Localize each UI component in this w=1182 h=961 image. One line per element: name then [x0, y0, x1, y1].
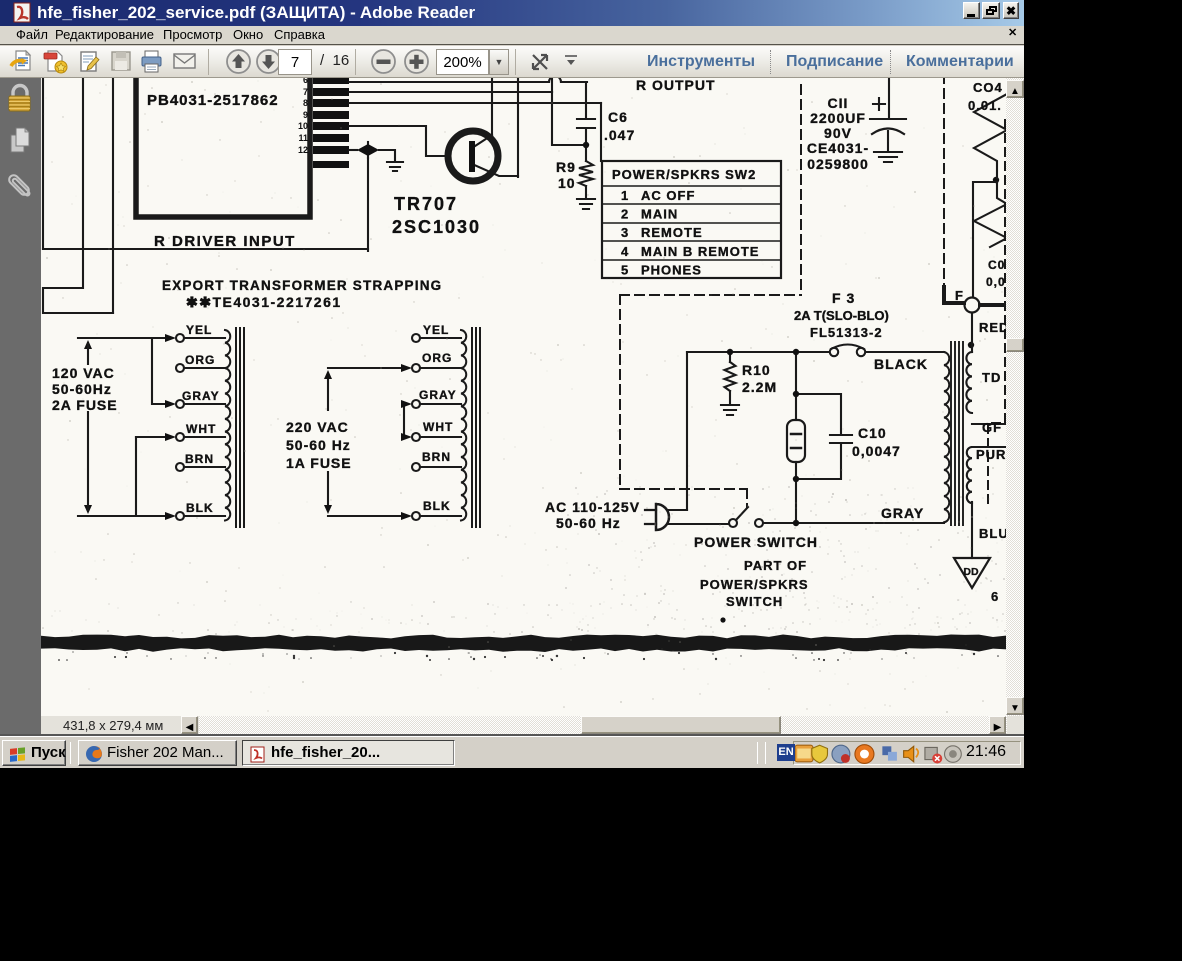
svg-text:SWITCH: SWITCH — [726, 594, 783, 609]
svg-text:0,0047: 0,0047 — [852, 443, 901, 459]
svg-text:220 VAC: 220 VAC — [286, 419, 349, 435]
svg-text:AC OFF: AC OFF — [641, 188, 695, 203]
svg-text:RED: RED — [979, 320, 1007, 335]
svg-text:C6: C6 — [608, 109, 628, 125]
svg-text:EXPORT TRANSFORMER STRAPPING: EXPORT TRANSFORMER STRAPPING — [162, 278, 442, 293]
svg-text:FL51313-2: FL51313-2 — [810, 325, 883, 340]
svg-text:50-60 Hz: 50-60 Hz — [556, 515, 621, 531]
svg-text:GRAY: GRAY — [182, 389, 220, 403]
svg-text:BLK: BLK — [186, 501, 214, 515]
svg-text:F: F — [955, 288, 964, 303]
svg-text:R10: R10 — [742, 362, 771, 378]
svg-text:120 VAC: 120 VAC — [52, 365, 115, 381]
svg-text:.047: .047 — [604, 127, 635, 143]
svg-text:CO4: CO4 — [973, 80, 1003, 95]
svg-text:ORG: ORG — [422, 351, 452, 365]
svg-text:MAIN B REMOTE: MAIN B REMOTE — [641, 244, 759, 259]
svg-text:POWER/SPKRS SW2: POWER/SPKRS SW2 — [612, 167, 756, 182]
svg-text:2SC1030: 2SC1030 — [392, 217, 481, 237]
svg-text:6: 6 — [303, 78, 308, 85]
svg-text:GRAY: GRAY — [419, 388, 457, 402]
svg-text:PHONES: PHONES — [641, 262, 702, 277]
svg-text:PUR: PUR — [976, 447, 1006, 462]
svg-text:REMOTE: REMOTE — [641, 225, 703, 240]
svg-text:TD: TD — [982, 370, 1001, 385]
svg-text:TR707: TR707 — [394, 194, 458, 214]
svg-text:1A FUSE: 1A FUSE — [286, 455, 352, 471]
svg-text:BRN: BRN — [422, 450, 451, 464]
svg-text:CII: CII — [828, 95, 849, 111]
svg-text:BLK: BLK — [423, 499, 451, 513]
svg-text:3: 3 — [621, 225, 629, 240]
svg-text:2.2M: 2.2M — [742, 379, 777, 395]
svg-text:50-60 Hz: 50-60 Hz — [286, 437, 351, 453]
svg-text:YEL: YEL — [186, 323, 212, 337]
svg-text:GF: GF — [982, 420, 1002, 435]
svg-text:4: 4 — [621, 244, 629, 259]
svg-text:F 3: F 3 — [832, 290, 855, 306]
svg-text:1: 1 — [621, 188, 629, 203]
svg-text:5: 5 — [621, 262, 629, 277]
svg-text:R OUTPUT: R OUTPUT — [636, 78, 716, 93]
svg-text:50-60Hz: 50-60Hz — [52, 381, 112, 397]
svg-text:0259800: 0259800 — [807, 156, 869, 172]
svg-text:2: 2 — [621, 207, 629, 222]
svg-text:C10: C10 — [858, 425, 887, 441]
svg-text:R DRIVER INPUT: R DRIVER INPUT — [154, 233, 296, 250]
svg-text:YEL: YEL — [423, 323, 449, 337]
svg-text:8: 8 — [303, 98, 308, 108]
svg-text:2200UF: 2200UF — [810, 110, 866, 126]
svg-text:PART OF: PART OF — [744, 558, 807, 573]
svg-text:DD: DD — [963, 566, 979, 578]
svg-text:0,0: 0,0 — [986, 275, 1006, 289]
svg-text:AC 110-125V: AC 110-125V — [545, 499, 640, 515]
svg-text:ORG: ORG — [185, 353, 215, 367]
svg-text:2A FUSE: 2A FUSE — [52, 397, 118, 413]
svg-text:BRN: BRN — [185, 452, 214, 466]
svg-text:2A T(SLO-BLO): 2A T(SLO-BLO) — [794, 308, 889, 323]
svg-text:BLU: BLU — [979, 526, 1007, 541]
svg-text:12: 12 — [298, 145, 308, 155]
svg-text:6: 6 — [991, 589, 999, 604]
svg-text:CE4031-: CE4031- — [807, 140, 869, 156]
svg-text:9: 9 — [303, 110, 308, 120]
svg-text:7: 7 — [303, 87, 308, 97]
svg-text:R9: R9 — [556, 159, 576, 175]
svg-text:10: 10 — [558, 175, 576, 191]
svg-text:10: 10 — [298, 121, 308, 131]
svg-text:WHT: WHT — [186, 422, 216, 436]
svg-text:WHT: WHT — [423, 420, 453, 434]
svg-text:GRAY: GRAY — [881, 505, 924, 521]
svg-text:BLACK: BLACK — [874, 356, 928, 372]
svg-text:PB4031-2517862: PB4031-2517862 — [147, 92, 279, 109]
svg-text:MAIN: MAIN — [641, 207, 678, 222]
svg-text:90V: 90V — [824, 125, 852, 141]
svg-text:✱✱TE4031-2217261: ✱✱TE4031-2217261 — [186, 294, 342, 310]
svg-text:C0: C0 — [988, 258, 1005, 272]
svg-text:POWER SWITCH: POWER SWITCH — [694, 534, 818, 550]
svg-text:11: 11 — [298, 133, 308, 143]
svg-text:0.01.: 0.01. — [968, 98, 1002, 113]
